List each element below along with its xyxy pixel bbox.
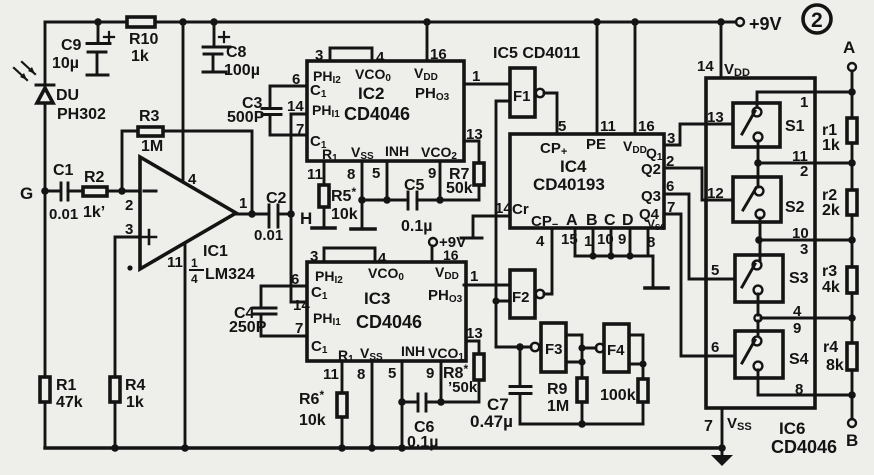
junction F2 input (492, 297, 510, 304)
IC U3 IC3 CD4046 (307, 262, 466, 365)
junction bottom rail R4 (111, 444, 119, 452)
svg-text:1: 1 (191, 256, 198, 270)
svg-text:1M: 1M (141, 138, 163, 155)
capacitor C4 250P with pins 6,7 loop (229, 271, 307, 337)
IC2 pin 16 wire (427, 22, 447, 63)
junction rail pin11 (848, 159, 856, 167)
pin 4 supply wire (183, 22, 197, 188)
svg-text:CD40193: CD40193 (533, 175, 605, 194)
svg-text:13: 13 (466, 126, 483, 143)
wire F1 output to IC4 pin5 (544, 93, 557, 134)
svg-text:C9: C9 (61, 37, 82, 54)
junction bottom rail pin11 (181, 444, 189, 452)
svg-text:2: 2 (800, 163, 808, 180)
capacitor C3 500P with pins 6,7 loop (227, 71, 307, 138)
svg-text:11: 11 (600, 118, 616, 135)
svg-text:0.1µ: 0.1µ (401, 218, 432, 235)
photodiode DU PH302 (14, 62, 106, 123)
svg-text:10k: 10k (331, 206, 358, 223)
svg-text:’50k: ’50k (448, 379, 478, 396)
svg-text:5: 5 (372, 165, 380, 182)
svg-text:B: B (846, 431, 858, 450)
junction top rail C8 (210, 18, 218, 26)
node pin2 junction (118, 187, 126, 195)
svg-text:1k’: 1k’ (83, 204, 105, 221)
svg-text:C2: C2 (266, 190, 287, 207)
svg-text:4: 4 (188, 171, 197, 188)
svg-text:16: 16 (443, 247, 459, 263)
capacitor C5 0.1u (401, 177, 432, 235)
junction pin5 node (383, 196, 391, 204)
svg-text:3: 3 (125, 221, 133, 238)
IC3 pin 5 wire (388, 361, 402, 448)
wire F4 output loop (629, 335, 647, 379)
svg-text:9: 9 (793, 320, 801, 337)
capacitor C6 0.1u (402, 394, 441, 451)
svg-text:8: 8 (795, 381, 803, 398)
resistor R7 50k on pin 13 (446, 126, 484, 200)
svg-text:10: 10 (597, 231, 614, 248)
junction bus pin9 (626, 252, 633, 259)
wire Q4 to S4 control (664, 199, 735, 356)
wire F3 output loop (566, 335, 586, 378)
capacitor C7 0.47u (470, 347, 531, 431)
switch S4 (735, 331, 809, 378)
svg-text:250P: 250P (229, 319, 267, 336)
svg-text:1: 1 (239, 195, 247, 212)
wire Q2 to S2 control (664, 153, 733, 200)
svg-text:1: 1 (584, 233, 592, 250)
junction output feedback (248, 210, 256, 218)
svg-text:8: 8 (347, 166, 355, 183)
svg-text:DU: DU (56, 87, 79, 104)
svg-text:13: 13 (466, 325, 483, 342)
junction top rail IC6 pin14 (717, 18, 725, 26)
svg-text:7: 7 (667, 199, 675, 216)
ground IC2 pin8 (351, 227, 375, 231)
IC4 pin 11 wire (597, 22, 616, 135)
svg-text:D: D (622, 212, 634, 229)
svg-text:R2: R2 (84, 169, 105, 186)
svg-text:IC2: IC2 (358, 84, 384, 103)
wire S2 pin12 control (707, 185, 724, 202)
resistor R1 47k (40, 377, 83, 411)
svg-text:13: 13 (707, 109, 724, 126)
svg-text:4: 4 (536, 233, 545, 250)
wire bottom ground rail (45, 446, 722, 449)
svg-text:CD4046: CD4046 (356, 312, 422, 332)
svg-text:G: G (20, 184, 33, 203)
IC4 pin 14 Cr wire to +9V (461, 200, 512, 238)
IC3 pin 9 wire (426, 361, 441, 402)
svg-text:10: 10 (792, 225, 809, 242)
svg-text:11: 11 (167, 254, 183, 271)
svg-text:3: 3 (800, 241, 808, 258)
svg-text:11: 11 (307, 166, 323, 183)
IC3 pin 11 wire (323, 361, 342, 393)
svg-text:F1: F1 (513, 88, 531, 105)
capacitor C8 100u (203, 22, 260, 79)
junction top rail op-amp supply (179, 18, 187, 26)
resistor R4 1k (110, 377, 146, 448)
resistor r2 2k (822, 187, 857, 219)
wire S4 pin6 control (711, 339, 719, 356)
svg-text:IC5 CD4011: IC5 CD4011 (493, 45, 580, 62)
IC2 pin 11 wire (307, 161, 324, 185)
junction bottom rail pin8 (368, 444, 376, 452)
svg-text:1k: 1k (131, 48, 149, 65)
svg-text:1k: 1k (126, 394, 144, 411)
svg-text:A: A (843, 38, 855, 57)
svg-text:14: 14 (287, 98, 304, 115)
IC U2 IC2 CD4046 (307, 61, 464, 164)
svg-text:3: 3 (310, 248, 318, 265)
ground IC4 (645, 256, 668, 288)
resistor R5 10k (319, 185, 358, 227)
svg-text:14: 14 (697, 58, 714, 75)
svg-text:9: 9 (428, 165, 436, 182)
svg-text:S3: S3 (789, 270, 809, 287)
resistor R3 1M feedback (122, 108, 252, 214)
wire S1 pin11 to S2 pin2 (754, 141, 852, 187)
wire F2 output to IC4 pin4 (544, 228, 552, 294)
capacitor C1 0.01 (49, 162, 83, 223)
terminal +9V IC3 (429, 234, 466, 251)
pin 11 wire to ground rail (167, 243, 185, 448)
terminal B (846, 419, 858, 450)
resistor r3 4k (822, 263, 857, 296)
resistor R8 50k on pin 13 (441, 325, 484, 402)
wire right rail A to B (851, 71, 854, 419)
svg-text:0.01: 0.01 (49, 206, 78, 223)
resistor R6 10k (299, 388, 347, 448)
svg-text:R1: R1 (56, 377, 77, 394)
svg-text:47k: 47k (56, 394, 83, 411)
svg-text:IC1: IC1 (203, 243, 228, 260)
svg-text:IC6: IC6 (779, 419, 805, 438)
svg-text:F2: F2 (512, 289, 530, 306)
svg-text:16: 16 (638, 118, 655, 135)
svg-text:9: 9 (618, 231, 626, 248)
svg-text:C5: C5 (404, 177, 425, 194)
svg-text:F4: F4 (607, 342, 625, 359)
wire F-bus to F3 input (496, 346, 531, 349)
svg-text:C: C (604, 212, 616, 229)
svg-text:C8: C8 (226, 44, 247, 61)
svg-text:8: 8 (647, 234, 655, 251)
IC4 pin 16 wire (635, 22, 655, 135)
switch S2 (733, 177, 805, 222)
wire S1 pin13 control (706, 109, 733, 126)
wire IC2 pin1 to F1 (464, 68, 510, 85)
svg-text:Q3: Q3 (641, 188, 661, 205)
svg-text:16: 16 (430, 46, 447, 63)
gate F2 (510, 270, 544, 318)
svg-text:R4: R4 (125, 377, 146, 394)
pin 1 output wire (236, 195, 269, 214)
resistor R2 1k (83, 169, 140, 221)
wire IC3 pin1 to F2 (464, 268, 510, 285)
IC3 pin 16 wire (432, 246, 459, 263)
wire plus input to R4 (115, 237, 140, 376)
IC6 pin 14 VDD wire (697, 22, 750, 79)
junction bottom rail R6 (338, 444, 346, 452)
svg-text:B: B (586, 212, 598, 229)
junction bottom rail pin5 (398, 444, 406, 452)
svg-text:4: 4 (191, 272, 198, 286)
svg-text:INH: INH (385, 143, 409, 159)
svg-text:0.1µ: 0.1µ (407, 434, 438, 451)
wire H bus to comparator inputs (290, 114, 293, 302)
svg-text:Q2: Q2 (641, 161, 661, 178)
svg-text:3: 3 (667, 130, 675, 147)
svg-text:6: 6 (666, 178, 674, 195)
IC U6 IC6 CD4046 box (706, 78, 815, 408)
svg-text:14: 14 (495, 200, 512, 217)
junction top rail C9 (94, 18, 102, 26)
switch S3 (735, 255, 809, 302)
svg-text:4: 4 (376, 49, 385, 66)
svg-text:4k: 4k (822, 279, 840, 296)
IC2 pins 3-4 top loop (315, 47, 385, 66)
wire F3 to F4 (582, 347, 596, 350)
svg-text:1: 1 (472, 68, 480, 85)
wire IC2 pin14 (287, 98, 307, 115)
svg-text:6: 6 (292, 71, 300, 88)
resistor 100k (600, 379, 648, 424)
svg-text:5: 5 (388, 365, 396, 382)
svg-text:3: 3 (315, 47, 323, 64)
svg-text:10µ: 10µ (52, 55, 79, 72)
capacitor C9 10u (52, 22, 114, 75)
svg-text:2: 2 (666, 153, 674, 170)
svg-text:7: 7 (296, 121, 304, 138)
svg-text:LM324: LM324 (205, 266, 255, 283)
svg-text:R10: R10 (129, 31, 158, 48)
resistor R9 1M (547, 378, 587, 424)
junction C6 right (437, 398, 445, 406)
svg-text:100µ: 100µ (224, 62, 260, 79)
wire S2 pin10 to S3 pin3 (755, 218, 852, 260)
svg-text:Cr: Cr (512, 201, 529, 218)
svg-text:F3: F3 (545, 341, 563, 358)
wire S1 pin1 (757, 92, 852, 111)
svg-text:6: 6 (711, 339, 719, 356)
wire S4 pin8 (758, 370, 852, 398)
svg-text:6: 6 (291, 271, 299, 288)
wire top +9V rail (45, 21, 736, 24)
gate F3 (531, 323, 566, 372)
svg-text:H: H (300, 209, 312, 228)
svg-text:2: 2 (811, 9, 823, 32)
svg-text:S4: S4 (789, 351, 809, 368)
svg-text:r3: r3 (822, 263, 837, 280)
svg-text:1: 1 (800, 94, 808, 111)
svg-text:S1: S1 (785, 118, 805, 135)
svg-text:10k: 10k (299, 412, 326, 429)
switch S1 (733, 103, 805, 147)
svg-text:500P: 500P (227, 109, 265, 126)
junction bus pin1 (589, 252, 596, 259)
svg-text:7: 7 (295, 320, 303, 337)
svg-text:7: 7 (704, 418, 713, 435)
gate F1 (510, 68, 544, 117)
junction bus pin10 (607, 252, 614, 259)
svg-text:1M: 1M (547, 398, 569, 415)
svg-text:1: 1 (470, 268, 478, 285)
junction rail pin8 (848, 391, 856, 399)
svg-text:2k: 2k (822, 202, 840, 219)
junction C7 tap (516, 343, 524, 351)
wire F-input bus (496, 101, 510, 347)
junction rail pin10 (848, 236, 856, 244)
wire IC3 pin14 (291, 297, 310, 314)
svg-text:1k: 1k (822, 137, 840, 154)
svg-text:9: 9 (426, 365, 434, 382)
svg-text:R3: R3 (139, 108, 160, 125)
svg-text:INH: INH (401, 343, 425, 359)
resistor R10 1k (127, 17, 158, 65)
terminal +9V (736, 14, 782, 34)
junction pin8 node (358, 196, 366, 204)
svg-text:5: 5 (711, 262, 719, 279)
svg-text:0.01: 0.01 (254, 227, 283, 244)
wire C5 node (362, 199, 479, 202)
IC2 pin 9 wire (428, 161, 440, 200)
ground IC6 (711, 448, 733, 466)
wire left rail (44, 22, 47, 448)
wire S3 pin5 control (711, 262, 719, 279)
IC2 pin 8 wire to ground (347, 161, 362, 228)
svg-text:r4: r4 (823, 339, 838, 356)
svg-text:15: 15 (561, 231, 578, 248)
terminal A (843, 38, 856, 71)
page number 2 circled (803, 5, 831, 33)
resistor r4 8k (823, 339, 857, 374)
wire S3 pin4 to S4 pin9 (754, 294, 852, 337)
svg-text:IC3: IC3 (364, 289, 390, 308)
IC6 pin 7 VSS wire (704, 408, 752, 448)
wire Q1 to S1 control (664, 124, 733, 147)
svg-text:2: 2 (125, 197, 133, 214)
capacitor C2 0.01 (254, 190, 291, 244)
svg-text:4: 4 (378, 250, 387, 267)
svg-text:IC4: IC4 (560, 157, 587, 176)
svg-text:+9V: +9V (749, 14, 782, 34)
junction top rail IC4 pin11 (593, 18, 601, 26)
svg-text:PH302: PH302 (57, 106, 106, 123)
svg-text:CD4046: CD4046 (771, 437, 837, 457)
svg-text:A: A (566, 212, 578, 229)
svg-text:R9: R9 (547, 381, 568, 398)
resistor r1 1k (822, 118, 857, 154)
ground R5 (312, 226, 335, 230)
svg-text:100k: 100k (600, 387, 636, 404)
gate F4 (596, 324, 629, 372)
svg-text:0.47µ: 0.47µ (470, 412, 513, 431)
node G (20, 184, 59, 203)
IC3 pins 3-4 top loop (310, 248, 387, 267)
junction top rail IC2 pin16 (423, 18, 431, 26)
svg-text:PE: PE (586, 136, 606, 153)
svg-text:50k: 50k (446, 180, 473, 197)
IC U4 IC4 CD40193 (510, 134, 666, 232)
svg-text:4: 4 (793, 303, 802, 320)
junction pin9 node (436, 196, 444, 204)
svg-text:8: 8 (357, 366, 365, 383)
junction rail pin1 (848, 88, 856, 96)
IC2 pin 5 wire (372, 161, 387, 200)
junction rail pin4 (848, 314, 856, 322)
svg-text:11: 11 (323, 366, 339, 383)
svg-text:8k: 8k (826, 357, 844, 374)
svg-text:C1: C1 (53, 162, 74, 179)
svg-text:12: 12 (707, 185, 724, 202)
IC3 pin 8 wire (357, 361, 372, 448)
wire RC bottom bus (520, 420, 643, 428)
IC4 pins 15,1,10,9,8 to ground bus (561, 228, 655, 256)
node H (287, 209, 312, 228)
svg-text:CD4046: CD4046 (344, 104, 410, 124)
junction top rail IC4 pin16 (631, 18, 639, 26)
op-amp U1 IC1 LM324 (127, 157, 254, 286)
svg-text:S2: S2 (785, 199, 805, 216)
wire Q3 to S3 control (664, 178, 735, 279)
junction bottom rail pin7 (718, 444, 726, 452)
junction C6 left (398, 398, 406, 406)
svg-text:5: 5 (558, 118, 566, 135)
